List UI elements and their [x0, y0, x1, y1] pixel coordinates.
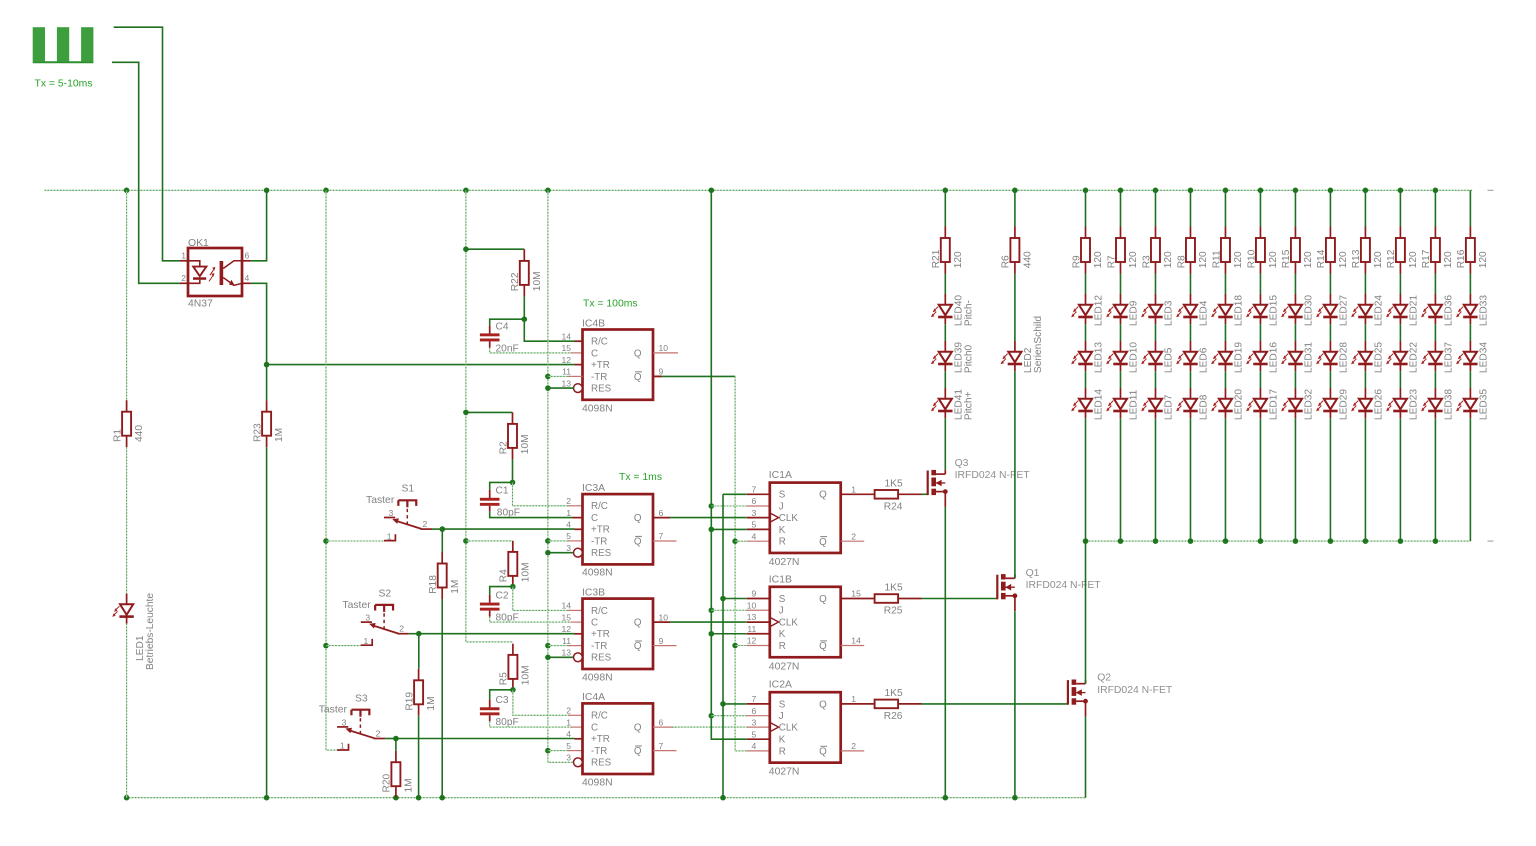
junction dots on top bus [124, 188, 130, 194]
LED LED28 [1324, 352, 1337, 363]
svg-text:6: 6 [752, 706, 757, 716]
svg-text:Q1: Q1 [1026, 568, 1040, 579]
op-amp-style IC box IC3A 4098N [583, 494, 654, 564]
svg-text:LED3: LED3 [1164, 300, 1175, 326]
junction J pin J IC2A [709, 713, 715, 719]
svg-text:R7: R7 [1106, 255, 1117, 268]
svg-text:Q: Q [819, 594, 827, 605]
svg-text:10: 10 [659, 612, 669, 622]
svg-text:10: 10 [659, 343, 669, 353]
svg-text:1: 1 [566, 717, 571, 727]
wire LED19 to LED20 [1224, 371, 1226, 388]
LED LED6 [1184, 352, 1197, 363]
svg-text:S: S [779, 699, 786, 710]
optocoupler OK1 4N37 [188, 248, 242, 296]
svg-text:Betriebs-Leuchte: Betriebs-Leuchte [145, 593, 156, 670]
LED LED3 [1149, 305, 1162, 316]
OK1 phototransistor [220, 261, 224, 285]
wire LED27 to LED28 [1329, 324, 1331, 341]
resistor R6 440 [1010, 238, 1019, 262]
wire bus to resistor R13 [1364, 190, 1366, 226]
svg-text:IC3A: IC3A [582, 483, 605, 494]
LED LED4 [1184, 305, 1197, 316]
junction R2/C1/RC node [510, 480, 516, 486]
LED LED18 [1219, 305, 1232, 316]
svg-text:LED10: LED10 [1129, 342, 1140, 373]
svg-text:CLK: CLK [779, 723, 799, 734]
wire LED9 to LED10 [1119, 324, 1121, 341]
wire S3 junction down to R20 [395, 739, 397, 751]
svg-text:120: 120 [1338, 251, 1349, 268]
svg-text:S2: S2 [379, 589, 392, 600]
svg-text:IRFD024 N-FET: IRFD024 N-FET [1097, 685, 1173, 696]
wire LED34 to LED35 [1469, 371, 1471, 388]
svg-text:4027N: 4027N [769, 557, 800, 568]
LED LED20 [1219, 399, 1232, 410]
wire bus to resistor R10 [1259, 190, 1261, 226]
wire LED20 to LED matrix lower bus [1224, 418, 1226, 541]
svg-text:12: 12 [747, 636, 757, 646]
wire bus to resistor R7 [1119, 190, 1121, 226]
wire S3 junction to IC4A +TR pin 4 [396, 738, 575, 740]
svg-text:R17: R17 [1421, 249, 1432, 268]
svg-text:7: 7 [659, 531, 664, 541]
svg-text:LED4: LED4 [1199, 300, 1210, 326]
wire node to pin 14 R/C of IC4B [524, 319, 574, 341]
wire S2 junction to IC3B +TR pin 12 [419, 633, 575, 635]
svg-text:LED16: LED16 [1269, 342, 1280, 373]
svg-text:R8: R8 [1176, 255, 1187, 268]
svg-text:12: 12 [561, 624, 571, 634]
resistor R24 1K5 [875, 490, 899, 499]
resistor R26 1K5 [875, 700, 899, 709]
wire LED1 to ground rail [126, 624, 128, 798]
wire LED38 to LED matrix lower bus [1434, 418, 1436, 541]
LED LED25 [1359, 352, 1372, 363]
junction reset net [545, 538, 551, 544]
svg-text:1K5: 1K5 [885, 688, 903, 699]
svg-text:C: C [591, 723, 598, 734]
wire logo low level to OK1 pin 2 [112, 62, 180, 283]
wire reset net vertical x=548 [548, 190, 574, 762]
wire LED28 to LED29 [1329, 371, 1331, 388]
CLK wedge IC1B [770, 617, 779, 626]
transistor Q3 IRFD024 N-FET [927, 471, 929, 496]
LED LED37 [1429, 352, 1442, 363]
svg-text:R21: R21 [931, 249, 942, 268]
junction dots on bottom rail [124, 795, 130, 801]
wire LED21 to LED22 [1399, 324, 1401, 341]
resistor R10 120 [1256, 238, 1265, 262]
svg-text:13: 13 [561, 648, 571, 658]
LED LED15 [1254, 305, 1267, 316]
resistor R1 440 [122, 412, 131, 436]
wire IC4B Qbar pin 9 to flip-flop reset net [653, 375, 662, 377]
wire LED4 to LED6 [1189, 324, 1191, 341]
svg-text:J: J [779, 711, 784, 722]
svg-text:2: 2 [399, 624, 404, 634]
wire junction to R2 [466, 411, 513, 413]
svg-text:R: R [779, 746, 786, 757]
wire LED18 to LED19 [1224, 324, 1226, 341]
svg-text:K: K [779, 735, 786, 746]
svg-text:LED8: LED8 [1199, 394, 1210, 420]
svg-text:Taster: Taster [366, 495, 395, 506]
svg-text:7: 7 [752, 485, 757, 495]
svg-text:7: 7 [659, 741, 664, 751]
junction reset net [545, 748, 551, 754]
svg-text:6: 6 [659, 508, 664, 518]
svg-text:2: 2 [423, 519, 428, 529]
svg-text:3: 3 [566, 543, 571, 553]
svg-text:R11: R11 [1211, 250, 1222, 268]
svg-text:3: 3 [752, 717, 757, 727]
resistor R18 1M [438, 564, 447, 588]
wire LED25 to LED26 [1364, 371, 1366, 388]
svg-text:Q: Q [634, 537, 642, 548]
svg-text:4098N: 4098N [582, 672, 613, 683]
wire IC1A Q pin 1 to R24 [841, 493, 875, 495]
svg-text:RES: RES [591, 758, 612, 769]
svg-text:-TR: -TR [591, 641, 607, 652]
CLK wedge IC2A [770, 722, 779, 731]
junction K pin K IC1B [709, 631, 715, 637]
wire LED6 to LED8 [1189, 371, 1191, 388]
flip-flop IC box IC1A 4027N [770, 483, 841, 553]
wire bus to R6 [1014, 190, 1016, 226]
junction reset net [545, 385, 551, 391]
svg-text:OK1: OK1 [188, 238, 209, 249]
transistor Q2 IRFD024 N-FET [1067, 680, 1069, 705]
svg-text:9: 9 [659, 636, 664, 646]
wire IC3B Q pin 10 to IC1B CLK [670, 621, 747, 623]
op-amp-style IC box IC4A 4098N [583, 703, 654, 774]
svg-text:3: 3 [365, 613, 370, 623]
svg-text:LED25: LED25 [1374, 342, 1385, 373]
wire node to pin 2 R/C of IC4A [513, 690, 570, 716]
wire bus to R21 [944, 190, 946, 226]
svg-text:K: K [779, 629, 786, 640]
junction reset net [545, 643, 551, 649]
svg-text:LED7: LED7 [1164, 394, 1175, 420]
svg-text:4: 4 [245, 273, 250, 283]
svg-text:LED35: LED35 [1479, 389, 1490, 420]
svg-text:+TR: +TR [591, 629, 610, 640]
svg-text:120: 120 [1478, 251, 1489, 268]
svg-text:14: 14 [561, 331, 571, 341]
svg-text:4027N: 4027N [769, 661, 800, 672]
svg-text:13: 13 [747, 612, 757, 622]
LED LED22 [1394, 352, 1407, 363]
wire LED40 to LED39 [944, 324, 946, 341]
svg-text:+TR: +TR [591, 734, 610, 745]
svg-text:120: 120 [1128, 251, 1139, 268]
svg-text:S: S [779, 490, 786, 501]
svg-text:Q: Q [819, 747, 827, 758]
junction R4/C2/RC node [510, 584, 516, 590]
LED LED39 [939, 352, 952, 363]
resistor R25 1K5 [875, 594, 899, 603]
svg-text:10M: 10M [532, 271, 543, 291]
svg-text:LED34: LED34 [1479, 342, 1490, 373]
wire LED10 to LED11 [1119, 371, 1121, 388]
svg-text:LED19: LED19 [1234, 342, 1245, 373]
svg-text:LED24: LED24 [1374, 295, 1385, 326]
svg-text:LED20: LED20 [1234, 389, 1245, 420]
wire J/K net vertical from bus [711, 190, 747, 739]
LED LED16 [1254, 352, 1267, 363]
svg-text:LED27: LED27 [1339, 295, 1350, 326]
wire R4 to node [512, 576, 514, 587]
svg-text:R6: R6 [1001, 255, 1012, 268]
wire R24 to Q3 gate [922, 493, 929, 495]
svg-text:Tx = 100ms: Tx = 100ms [583, 299, 638, 310]
wire bus to resistor R14 [1329, 190, 1331, 226]
LED LED41 [939, 399, 952, 410]
junction dots on LED matrix lower bus [1083, 538, 1089, 544]
wire +TR of IC4B from junction [267, 364, 575, 366]
wire node to C1 [490, 482, 513, 489]
resistor R17 120 [1431, 238, 1440, 262]
svg-text:LED21: LED21 [1409, 295, 1420, 326]
svg-text:1K5: 1K5 [885, 583, 903, 594]
svg-text:120: 120 [1093, 251, 1104, 268]
LED LED32 [1289, 399, 1302, 410]
resistor R13 120 [1361, 238, 1370, 262]
svg-text:+TR: +TR [591, 525, 610, 536]
junction R pin IC1A [732, 538, 738, 544]
svg-text:Q: Q [634, 746, 642, 757]
svg-text:10M: 10M [521, 665, 532, 685]
svg-text:2: 2 [851, 741, 856, 751]
svg-text:LED18: LED18 [1234, 295, 1245, 326]
svg-text:S: S [779, 594, 786, 605]
CLK wedge IC1A [770, 513, 779, 522]
junction S pin S IC1B [720, 596, 726, 602]
resistor R2 10M [508, 424, 517, 448]
svg-text:Q: Q [634, 348, 642, 359]
svg-text:R22: R22 [510, 272, 521, 291]
svg-text:Taster: Taster [319, 705, 348, 716]
svg-text:R19: R19 [404, 692, 415, 711]
LED LED5 [1149, 352, 1162, 363]
junction R4 branch [463, 538, 469, 544]
svg-text:120: 120 [1408, 251, 1419, 268]
svg-text:1: 1 [181, 251, 186, 261]
wire LED matrix lower bus net [1086, 540, 1471, 542]
wire junction to R22 [466, 248, 524, 250]
wire S3 pin 2 to junction [385, 738, 396, 740]
wire bus to resistor R15 [1294, 190, 1296, 226]
svg-text:-TR: -TR [591, 536, 607, 547]
svg-text:7: 7 [752, 694, 757, 704]
svg-text:120: 120 [1268, 251, 1279, 268]
wire S1 junction down to R18 [441, 529, 443, 552]
svg-text:1: 1 [566, 508, 571, 518]
wire bus to resistor R8 [1189, 190, 1191, 226]
svg-text:11: 11 [747, 624, 756, 634]
svg-text:IRFD024 N-FET: IRFD024 N-FET [955, 470, 1031, 481]
svg-text:1M: 1M [404, 778, 415, 792]
wire S1 pin 2 to junction [432, 528, 442, 530]
LED LED23 [1394, 399, 1407, 410]
svg-text:2: 2 [376, 728, 381, 738]
resistor R12 120 [1396, 238, 1405, 262]
svg-text:Q: Q [634, 618, 642, 629]
wire R23 to ground rail [266, 447, 268, 798]
LED LED9 [1114, 305, 1127, 316]
LED LED27 [1324, 305, 1337, 316]
wire S2 junction down to R19 [418, 634, 420, 669]
svg-text:12: 12 [561, 355, 571, 365]
wire timing junction to R4 [466, 540, 513, 542]
svg-text:LED38: LED38 [1444, 389, 1455, 420]
wire C3 to pin 1 C of IC4A [490, 721, 572, 727]
svg-text:Q: Q [819, 490, 827, 501]
RES inverting bubble IC4A [574, 758, 583, 767]
wire node to pin 2 R/C of IC3A [513, 482, 571, 505]
svg-text:R: R [779, 537, 786, 548]
RES inverting bubble IC4B [574, 384, 583, 393]
LED LED40 [939, 305, 952, 316]
junction S pin S IC2A [720, 701, 726, 707]
wire Q3 source to ground rail [944, 507, 946, 798]
svg-text:C4: C4 [496, 322, 509, 333]
svg-text:C: C [591, 618, 598, 629]
svg-text:S1: S1 [402, 483, 415, 494]
svg-text:K: K [779, 525, 786, 536]
svg-text:4027N: 4027N [769, 766, 800, 777]
junction reset net [545, 374, 551, 380]
capacitor C3 80pF [480, 707, 500, 710]
LED LED11 [1114, 399, 1127, 410]
svg-text:10M: 10M [520, 562, 531, 582]
wire LED14 to LED matrix lower bus [1085, 418, 1087, 541]
wire LED2 to Q1 drain [1014, 371, 1016, 578]
resistor R21 120 [941, 238, 950, 262]
svg-text:1M: 1M [426, 696, 437, 710]
svg-text:LED15: LED15 [1269, 295, 1280, 326]
LED LED14 [1079, 399, 1092, 410]
svg-text:4N37: 4N37 [188, 299, 213, 310]
wire to S2 pin 1 [326, 645, 361, 647]
wire OK1 pin 4 down to R23 and +TR branch [251, 283, 267, 400]
svg-text:R24: R24 [884, 501, 903, 512]
svg-text:3: 3 [389, 508, 394, 518]
RES inverting bubble IC3B [574, 653, 583, 662]
flip-flop IC box IC2A 4027N [770, 692, 841, 762]
LED LED36 [1429, 305, 1442, 316]
LED LED10 [1114, 352, 1127, 363]
svg-text:C3: C3 [496, 695, 509, 706]
svg-text:9: 9 [659, 367, 664, 377]
LED LED21 [1394, 305, 1407, 316]
wire LED26 to LED matrix lower bus [1364, 418, 1366, 541]
LED LED13 [1079, 352, 1092, 363]
wire LED17 to LED matrix lower bus [1259, 418, 1261, 541]
wire bus down to R1 [126, 190, 128, 400]
svg-text:120: 120 [1303, 251, 1314, 268]
wire IC2A Q pin 1 to R26 [841, 703, 875, 705]
svg-text:Q2: Q2 [1097, 673, 1111, 684]
junction R2 branch [463, 410, 469, 416]
svg-text:5: 5 [566, 741, 571, 751]
svg-text:IC2A: IC2A [769, 680, 792, 691]
resistor R3 120 [1151, 238, 1160, 262]
wire LED29 to LED matrix lower bus [1329, 418, 1331, 541]
svg-text:IRFD024 N-FET: IRFD024 N-FET [1026, 580, 1102, 591]
junction S2 pin1 branch [323, 643, 329, 649]
svg-text:C: C [591, 513, 598, 524]
junction R22 branch [463, 246, 469, 252]
LED LED2 [1008, 352, 1021, 363]
svg-text:Pitch+: Pitch+ [964, 391, 975, 420]
resistor R11 120 [1221, 238, 1230, 262]
wire S2 pin 2 to junction [409, 633, 419, 635]
svg-text:10: 10 [747, 600, 757, 610]
wire LED30 to LED31 [1294, 324, 1296, 341]
svg-text:CLK: CLK [779, 513, 799, 524]
svg-text:R18: R18 [428, 575, 439, 594]
svg-text:1M: 1M [450, 580, 461, 594]
wire LED7 to LED matrix lower bus [1154, 418, 1156, 541]
junction reset net [545, 550, 551, 556]
wire LED24 to LED25 [1364, 324, 1366, 341]
OK1 internal LED [188, 261, 200, 266]
svg-text:R16: R16 [1456, 249, 1467, 268]
svg-text:5: 5 [752, 520, 757, 530]
wire Q2 source to ground rail end [1085, 717, 1087, 798]
svg-text:Q: Q [634, 513, 642, 524]
svg-text:J: J [779, 501, 784, 512]
wire R26 to Q2 gate [922, 703, 1068, 705]
resistor R23 1M [262, 412, 271, 436]
junction reset net [545, 655, 551, 661]
svg-text:15: 15 [561, 343, 571, 353]
svg-text:Pitch-: Pitch- [964, 300, 975, 326]
svg-text:LED6: LED6 [1199, 347, 1210, 373]
wire LED13 to LED14 [1085, 371, 1087, 388]
wire LED12 to LED13 [1085, 324, 1087, 341]
capacitor C1 80pF [480, 498, 500, 501]
wire LED3 to LED5 [1154, 324, 1156, 341]
svg-text:LED29: LED29 [1339, 389, 1350, 420]
LED LED12 [1079, 305, 1092, 316]
wire RES stubs on reset net [548, 387, 574, 389]
svg-text:Q: Q [819, 699, 827, 710]
svg-text:LED33: LED33 [1479, 295, 1490, 326]
svg-text:Q: Q [634, 372, 642, 383]
svg-text:3: 3 [752, 508, 757, 518]
wire R6 to LED2 [1014, 274, 1016, 342]
junction R pin IC1B [732, 643, 738, 649]
svg-text:120: 120 [1233, 251, 1244, 268]
svg-text:440: 440 [1023, 251, 1034, 268]
svg-text:4: 4 [752, 741, 757, 751]
svg-text:LED9: LED9 [1129, 300, 1140, 326]
wire R22 to node [523, 296, 525, 319]
svg-text:R25: R25 [884, 606, 903, 617]
svg-text:LED5: LED5 [1164, 347, 1175, 373]
wire LED5 to LED7 [1154, 371, 1156, 388]
svg-text:2: 2 [851, 531, 856, 541]
wire LED33 to LED34 [1469, 324, 1471, 341]
svg-text:SerienSchild: SerienSchild [1033, 316, 1044, 374]
wire C1 to pin 1 C of IC3A [490, 512, 573, 518]
svg-text:LED12: LED12 [1094, 295, 1105, 326]
wire LED39 to LED41 [944, 371, 946, 388]
svg-text:LED37: LED37 [1444, 342, 1455, 373]
